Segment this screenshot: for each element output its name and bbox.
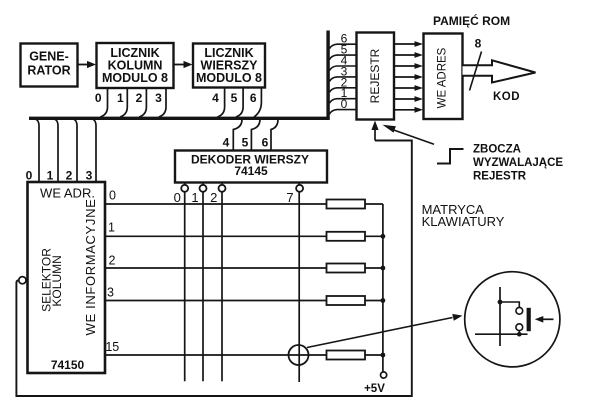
svg-text:3: 3 bbox=[155, 91, 162, 105]
svg-text:6: 6 bbox=[262, 136, 269, 150]
svg-text:MODULO 8: MODULO 8 bbox=[196, 71, 262, 85]
svg-text:PAMIĘĆ ROM: PAMIĘĆ ROM bbox=[433, 13, 510, 28]
svg-text:MODULO 8: MODULO 8 bbox=[102, 71, 168, 85]
svg-text:WE ADR.: WE ADR. bbox=[40, 186, 95, 201]
svg-text:74145: 74145 bbox=[234, 164, 268, 178]
svg-text:0: 0 bbox=[174, 190, 181, 205]
svg-text:3: 3 bbox=[86, 169, 93, 183]
svg-text:ZBOCZA: ZBOCZA bbox=[473, 144, 521, 156]
svg-text:4: 4 bbox=[212, 91, 219, 105]
svg-text:1: 1 bbox=[47, 169, 54, 183]
svg-text:15: 15 bbox=[105, 340, 119, 354]
svg-text:WE ADRES: WE ADRES bbox=[437, 47, 449, 108]
svg-text:KLAWIATURY: KLAWIATURY bbox=[422, 214, 505, 229]
svg-text:74150: 74150 bbox=[51, 358, 85, 372]
svg-text:REJESTR: REJESTR bbox=[368, 48, 382, 103]
svg-text:RATOR: RATOR bbox=[27, 64, 70, 78]
svg-text:+5V: +5V bbox=[364, 383, 385, 395]
svg-text:6: 6 bbox=[250, 91, 257, 105]
svg-text:5: 5 bbox=[242, 136, 249, 150]
svg-text:0: 0 bbox=[109, 189, 116, 203]
svg-text:2: 2 bbox=[210, 190, 217, 205]
svg-text:7: 7 bbox=[286, 190, 293, 205]
svg-text:0: 0 bbox=[341, 97, 348, 111]
svg-text:REJESTR: REJESTR bbox=[473, 171, 527, 183]
svg-text:3: 3 bbox=[107, 286, 114, 300]
svg-text:KOD: KOD bbox=[493, 91, 520, 103]
svg-text:2: 2 bbox=[66, 169, 73, 183]
svg-text:2: 2 bbox=[136, 91, 143, 105]
svg-text:KOLUMN: KOLUMN bbox=[50, 255, 64, 306]
svg-text:8: 8 bbox=[475, 37, 482, 51]
svg-text:4: 4 bbox=[223, 136, 230, 150]
svg-text:5: 5 bbox=[231, 91, 238, 105]
svg-text:1: 1 bbox=[117, 91, 124, 105]
svg-text:0: 0 bbox=[95, 91, 102, 105]
svg-text:WE INFORMACYJNE: WE INFORMACYJNE bbox=[83, 199, 98, 336]
svg-text:0: 0 bbox=[26, 169, 33, 183]
svg-text:WYZWALAJĄCE: WYZWALAJĄCE bbox=[473, 157, 563, 169]
svg-text:1: 1 bbox=[108, 221, 115, 235]
svg-text:1: 1 bbox=[191, 190, 198, 205]
svg-text:GENE-: GENE- bbox=[29, 50, 69, 64]
svg-text:2: 2 bbox=[109, 254, 116, 268]
